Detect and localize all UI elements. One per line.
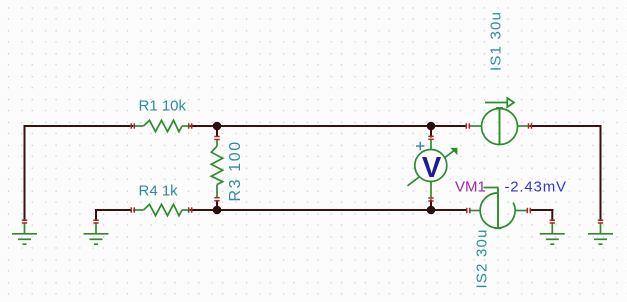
wire bottom rail left stub (ground up)	[95, 210, 97, 221]
IS1 leads	[469, 125, 528, 127]
pin marks GND2	[93, 220, 98, 223]
wire top-left vertical (ground to top rail)	[24, 126, 26, 221]
VM1 leads	[430, 140, 432, 198]
ground GND3 (bottom-right)	[540, 223, 565, 244]
wire stub R3 bottom pin to node B	[216, 200, 218, 210]
pin marks GND4	[598, 220, 603, 223]
wire stub VM1 bottom pin to node D	[430, 200, 432, 211]
node A junction dot (R1/R3 top)	[213, 122, 222, 131]
svg-text:V: V	[422, 152, 442, 184]
pin marks R4	[131, 207, 191, 212]
svg-text:R4 1k: R4 1k	[139, 183, 179, 200]
node C junction dot (VM1 top)	[427, 122, 436, 131]
svg-text:R1 10k: R1 10k	[139, 98, 187, 115]
pin marks GND3	[550, 220, 555, 223]
ground GND4 (far right)	[588, 223, 613, 244]
VM1 body circle	[415, 150, 447, 182]
wire top rail middle segment (R1 to IS1)	[190, 125, 467, 127]
resistor R1 body	[133, 120, 191, 131]
pin marks GND1	[22, 220, 27, 223]
wire bottom rail middle segment (R4 to IS2)	[190, 209, 467, 211]
svg-text:IS1 30u: IS1 30u	[488, 11, 505, 71]
wire bottom rail right segment (IS2 to ground corner)	[530, 209, 554, 211]
VM1 plus polarity mark	[416, 142, 425, 151]
pin marks IS2	[467, 208, 531, 213]
svg-text:VM1: VM1	[455, 179, 486, 196]
VM1 arrow diagonal	[408, 148, 458, 186]
IS1 bar	[499, 108, 501, 145]
wire right vertical (top rail to ground)	[600, 125, 602, 221]
wire bottom rail left segment	[95, 209, 132, 211]
resistor R4 body	[133, 204, 191, 215]
node B junction dot (R4/R3 bottom)	[213, 206, 222, 215]
ground GND1 (left)	[12, 223, 37, 244]
wire stub node A to R3 top pin	[216, 126, 218, 136]
pin marks IS1	[466, 123, 531, 128]
IS1 arrow	[485, 98, 514, 107]
wire top rail right segment (IS1 to corner)	[530, 125, 602, 127]
IS2 leads	[470, 210, 528, 212]
ground GND2 (bottom-left)	[84, 223, 109, 244]
svg-text:R3 100: R3 100	[227, 140, 244, 201]
svg-text:IS2 30u: IS2 30u	[474, 228, 491, 288]
IS2 arrow line	[484, 187, 499, 189]
pin marks R1	[131, 123, 191, 128]
pin marks R3	[214, 137, 219, 201]
svg-text:-2.43mV: -2.43mV	[505, 179, 567, 196]
IS2 bar	[497, 188, 499, 229]
node D junction dot (VM1 bottom)	[427, 206, 436, 215]
IS2 body circle (open at top-right)	[480, 193, 515, 228]
wire stub node C to VM1 top pin	[430, 126, 432, 138]
pin marks VM1	[428, 136, 433, 201]
wire top rail left segment	[24, 125, 134, 127]
wire bottom-right vertical stub to ground	[551, 209, 553, 221]
resistor R3 body (vertical)	[211, 140, 222, 198]
IS1 body circle	[482, 109, 518, 145]
